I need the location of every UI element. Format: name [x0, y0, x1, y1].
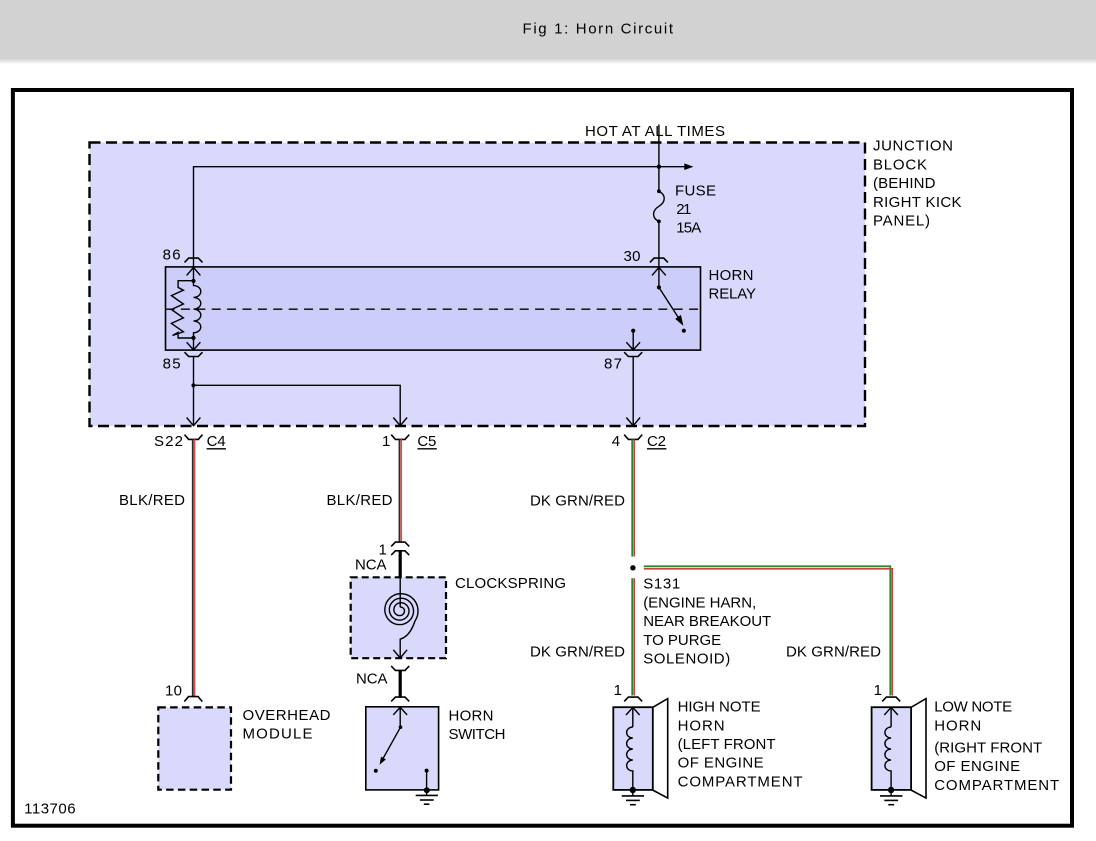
svg-text:SOLENOID): SOLENOID): [643, 651, 730, 668]
wire: 85 node down to C4 exit: [193, 385, 195, 418]
svg-text:1: 1: [874, 682, 882, 699]
wire DK GRN/RED: S131 branch (red strand): [644, 569, 892, 696]
connector pin 87 (cup): [624, 352, 642, 356]
connector 10 hat (overhead module): [184, 697, 202, 702]
svg-text:OF ENGINE: OF ENGINE: [678, 755, 764, 772]
svg-text:30: 30: [624, 248, 641, 265]
horn switch blade with arrowhead: [380, 727, 401, 765]
junction block dashed border: [90, 143, 866, 427]
svg-text:HIGH NOTE: HIGH NOTE: [678, 699, 761, 716]
connector pin 86 (hat): [185, 258, 203, 262]
high note horn ground stub: [632, 790, 634, 796]
svg-text:HORN: HORN: [934, 717, 981, 734]
high note horn coil: [627, 727, 633, 790]
wire: 85 down to branch node: [193, 357, 195, 386]
svg-text:OVERHEAD: OVERHEAD: [243, 707, 331, 724]
svg-text:DK GRN/RED: DK GRN/RED: [786, 644, 881, 661]
fuse F21 body: [654, 189, 665, 223]
svg-text:NEAR BREAKOUT: NEAR BREAKOUT: [643, 613, 771, 630]
svg-text:113706: 113706: [24, 801, 76, 818]
label HIGH NOTE HORN (LEFT FRONT OF ENGINE COMPARTMENT: [678, 699, 803, 791]
svg-text:4: 4: [612, 433, 620, 450]
connector pin 30 (hat): [650, 258, 668, 262]
svg-text:OF ENGINE: OF ENGINE: [934, 758, 1020, 775]
splice node S131 dot: [630, 565, 635, 570]
svg-text:(BEHIND: (BEHIND: [873, 175, 936, 192]
relay switch pivot dot: [657, 285, 661, 289]
svg-text:TO PURGE: TO PURGE: [643, 632, 721, 649]
clockspring bottom connector (cup): [391, 666, 409, 671]
high note horn entry arrow: [626, 707, 640, 727]
svg-text:NCA: NCA: [356, 671, 388, 688]
horn switch ground junction dot: [424, 787, 430, 793]
svg-text:C4: C4: [207, 433, 226, 450]
horn switch box: [366, 707, 439, 790]
connector 1 C5 (cup): [391, 435, 409, 440]
horn switch pivot dot: [399, 725, 403, 729]
high note horn ground dot: [630, 787, 636, 793]
horn switch connector hat: [391, 697, 409, 701]
low note horn entry arrow: [884, 707, 898, 727]
relay coil junction dot top: [191, 279, 195, 283]
svg-text:87: 87: [604, 355, 622, 372]
clockspring exit arrow: [393, 650, 407, 658]
svg-text:LOW NOTE: LOW NOTE: [934, 699, 1012, 716]
clockspring spiral tail: [400, 621, 415, 651]
C5 exit arrow through junction block edge: [393, 418, 407, 426]
svg-text:(LEFT FRONT: (LEFT FRONT: [678, 736, 776, 753]
wire DK GRN/RED: S131 to high note horn (red strand): [633, 578, 635, 695]
svg-text:C5: C5: [417, 433, 436, 450]
svg-text:HORN: HORN: [678, 717, 725, 734]
label LOW NOTE HORN (RIGHT FRONT OF ENGINE COMPARTMENT: [934, 699, 1059, 794]
svg-text:BLK/RED: BLK/RED: [327, 492, 393, 509]
wire DK GRN/RED: S131 to high note horn (green strand): [631, 578, 633, 695]
svg-text:DK GRN/RED: DK GRN/RED: [530, 493, 625, 510]
svg-text:S131: S131: [643, 576, 680, 593]
label JUNCTION BLOCK (BEHIND RIGHT KICK PANEL): [873, 138, 962, 230]
label C5 underlined: [417, 433, 436, 450]
ground symbol (low note horn): [880, 796, 902, 805]
horn switch entry arrow: [393, 707, 407, 727]
high note horn speaker flare: [653, 699, 668, 799]
svg-text:DK GRN/RED: DK GRN/RED: [530, 644, 625, 661]
svg-text:SWITCH: SWITCH: [449, 726, 506, 743]
wire into spiral: [399, 577, 401, 607]
clockspring box fill: [351, 577, 446, 658]
ground symbol (horn switch): [416, 795, 438, 804]
svg-text:HORN: HORN: [709, 267, 754, 284]
pin 30 entry arrow into relay: [652, 258, 666, 287]
svg-text:CLOCKSPRING: CLOCKSPRING: [455, 575, 566, 592]
wire BLK/RED: C5 to clockspring connector (black strand): [398, 439, 400, 541]
wire: fuse to relay pin 30: [658, 221, 660, 258]
wire BLK/RED: C5 red strand: [400, 439, 402, 541]
relay coil arc winding: [194, 281, 201, 338]
relay switch contact dot: [682, 329, 686, 333]
relay switch blade with arrowhead: [659, 287, 684, 326]
wire: 87 down to C2 exit: [632, 357, 634, 419]
wire DK GRN/RED: S131 branch to low note horn (green strand): [644, 566, 891, 695]
svg-text:10: 10: [165, 683, 182, 700]
ground symbol (high note horn): [622, 796, 644, 805]
low note horn ground dot: [888, 787, 894, 793]
svg-text:PANEL): PANEL): [873, 213, 930, 230]
low note horn box: [872, 707, 912, 790]
wire BLK/RED: C4 to overhead module (black strand): [192, 439, 194, 696]
label S131 (ENGINE HARN, NEAR BREAKOUT TO PURGE SOLENOID): [643, 576, 771, 668]
pin 87 stub and arrow out of relay: [626, 331, 640, 350]
branch node dot (85 wire): [191, 383, 195, 387]
horn relay box: [166, 267, 701, 350]
svg-text:RIGHT KICK: RIGHT KICK: [873, 194, 962, 211]
svg-text:BLOCK: BLOCK: [873, 156, 927, 173]
svg-text:85: 85: [163, 356, 181, 373]
svg-text:MODULE: MODULE: [243, 726, 313, 743]
title bar: [0, 0, 1096, 59]
relay internal dashed link line: [166, 308, 701, 310]
junction block fill: [90, 143, 866, 427]
connector S22 C4 (cup): [185, 435, 203, 440]
horn switch contact dot: [374, 769, 378, 773]
svg-text:S22: S22: [154, 433, 183, 450]
horn switch ground stub: [426, 771, 428, 796]
svg-text:C2: C2: [647, 433, 666, 450]
relay coil junction dot bottom: [191, 336, 195, 340]
svg-text:COMPARTMENT: COMPARTMENT: [934, 777, 1059, 794]
svg-text:HORN: HORN: [449, 707, 494, 724]
wire: hot feed vertical (fuse column): [658, 125, 660, 192]
low note horn connector hat: [882, 697, 900, 701]
junction node dot (bus / fuse wire): [657, 165, 661, 169]
C4 exit arrow through junction block edge: [187, 418, 201, 426]
svg-text:NCA: NCA: [355, 556, 387, 573]
C2 exit arrow through junction block edge: [626, 418, 640, 426]
pin 85 arrow out of relay: [187, 338, 201, 350]
svg-text:1: 1: [614, 682, 622, 699]
clockspring spiral coil: [385, 594, 418, 625]
svg-text:15A: 15A: [676, 220, 701, 237]
svg-text:HOT AT ALL TIMES: HOT AT ALL TIMES: [585, 123, 725, 140]
wire DK GRN/RED: C2 down (green strand): [631, 439, 633, 556]
overhead module box fill: [158, 707, 231, 789]
horn switch ground contact dot: [425, 769, 429, 773]
wire NCA thick: connector to clockspring: [399, 551, 402, 578]
svg-text:RELAY: RELAY: [709, 286, 757, 303]
clockspring box dashed border: [351, 577, 446, 658]
label C2 underlined: [647, 433, 666, 450]
label FUSE 21 15A: [675, 182, 716, 236]
svg-text:BLK/RED: BLK/RED: [119, 492, 185, 509]
arrowhead at end of bus wire: [684, 163, 693, 170]
low note horn speaker flare: [911, 699, 926, 799]
wire: branch to C5 column: [194, 385, 401, 418]
label HORN RELAY: [709, 267, 757, 303]
svg-text:Fig 1: Horn Circuit: Fig 1: Horn Circuit: [523, 20, 674, 37]
label HORN SWITCH: [449, 707, 506, 743]
svg-text:21: 21: [676, 201, 691, 218]
label OVERHEAD MODULE: [243, 707, 331, 743]
clockspring inline connector lower hat: [391, 551, 409, 555]
clockspring inline connector upper hat: [391, 542, 409, 546]
overhead module dashed border: [158, 707, 231, 789]
relay coil resistor zigzag: [171, 281, 193, 338]
pin 87 stub dot: [631, 329, 635, 333]
svg-text:(RIGHT FRONT: (RIGHT FRONT: [934, 740, 1042, 757]
high note horn box: [613, 707, 653, 790]
svg-text:(ENGINE HARN,: (ENGINE HARN,: [643, 594, 756, 611]
pin 86 entry stub and arrow into relay: [187, 258, 201, 281]
svg-text:COMPARTMENT: COMPARTMENT: [678, 773, 803, 790]
label C4 underlined: [207, 433, 226, 450]
svg-text:1: 1: [382, 433, 390, 450]
svg-text:FUSE: FUSE: [675, 182, 716, 199]
wire: horizontal bus from 86 column to arrow: [194, 167, 685, 258]
low note horn ground stub: [890, 790, 892, 796]
wire BLK/RED: C4 red strand: [194, 439, 196, 696]
wire DK GRN/RED: C2 down (red strand): [633, 439, 635, 556]
wire NCA thick: clockspring to horn switch: [399, 670, 402, 697]
connector 4 C2 (cup): [624, 435, 642, 440]
svg-text:86: 86: [163, 247, 181, 264]
low note horn coil: [885, 727, 891, 790]
connector pin 85 (cup): [185, 352, 203, 356]
svg-text:JUNCTION: JUNCTION: [873, 138, 953, 155]
high note horn connector hat: [624, 697, 642, 701]
